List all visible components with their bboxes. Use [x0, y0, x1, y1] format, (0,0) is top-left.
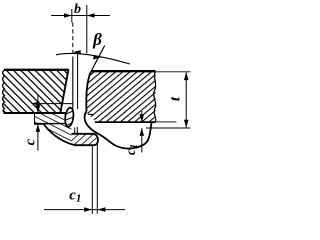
- bulb at band end: [64, 107, 74, 127]
- left plate bottom edge: [4, 112, 70, 114]
- bar (lower bead of lock lip): [44, 125, 98, 146]
- dashed extension line in gap: [72, 23, 74, 58]
- svg-text:b: b: [74, 2, 81, 17]
- right plate wavy break edge: [154, 71, 156, 122]
- bead cove outline under right plate: [85, 111, 152, 148]
- beta angle arc: [56, 30, 130, 64]
- neck lines between bulb and bar: [74, 128, 76, 134]
- dimension t (right): [168, 72, 189, 127]
- left plate: [3, 70, 69, 114]
- swoosh region below band (flat hatch): [44, 124, 72, 144]
- right plate bevel edge and root nose ledge: [86, 72, 91, 112]
- short extension of plate bottom right of break edge: [156, 121, 177, 123]
- dimension c1 (bottom): [44, 188, 125, 212]
- bevel extension line above right plate: [91, 46, 105, 72]
- right plate flat bottom: [95, 121, 156, 123]
- top extension line right: [156, 71, 191, 73]
- right plate: [85, 71, 156, 148]
- svg-text:β: β: [92, 30, 102, 49]
- dimension c (left): [23, 95, 74, 151]
- solid gap line 1: [72, 57, 74, 112]
- dimension b: [51, 2, 110, 54]
- svg-text:c: c: [23, 138, 39, 145]
- extension line bottom reference to right: [146, 127, 191, 129]
- bottom c1 extension lines: [91, 146, 93, 214]
- dimension c1 (right): [124, 111, 144, 155]
- solid gap line 2: [77, 52, 79, 109]
- backing band under left plate: [34, 113, 69, 124]
